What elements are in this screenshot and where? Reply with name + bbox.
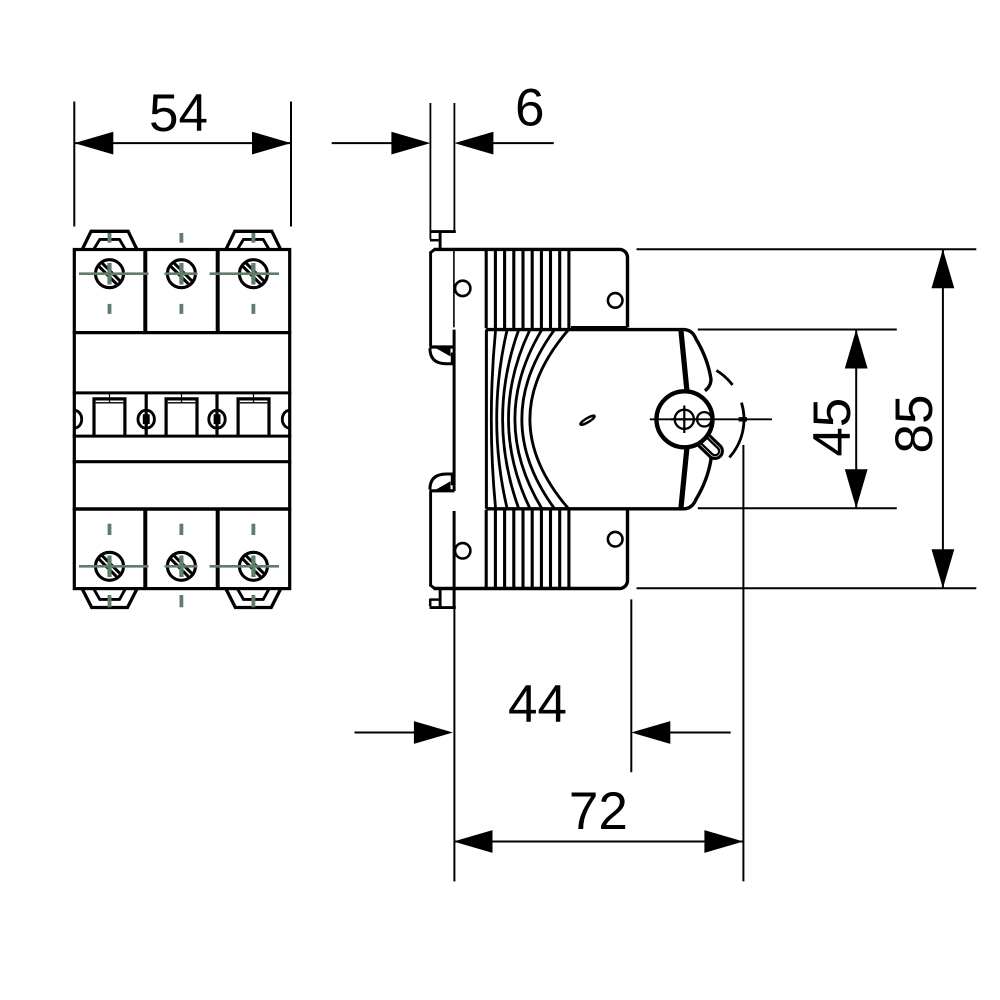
dim 54 line	[74, 142, 291, 144]
dim 54 extension line left	[73, 102, 75, 227]
center line vert screw bottom1	[108, 524, 112, 535]
svg-text:44: 44	[508, 675, 567, 734]
top clip pole3 outer	[226, 231, 281, 249]
rivet oval divider2	[209, 410, 225, 428]
dim 45 extension line bottom	[698, 507, 897, 509]
screw terminal bottom pole2	[167, 552, 195, 580]
molded face arc 7	[530, 330, 569, 509]
mid line 2 (toggle strip bottom)	[73, 435, 292, 438]
dim 45 arrowhead top	[845, 330, 868, 369]
top terminal row bottom line	[73, 331, 292, 334]
dim 44 line right part	[669, 732, 731, 734]
din rail outer line upper	[429, 103, 431, 240]
dim 6 tail right	[492, 142, 554, 144]
body top edge with right rounded corner	[434, 249, 628, 327]
rail flange hook bottom wedge	[436, 481, 451, 489]
rail flange hook bottom curve	[430, 474, 452, 490]
center line vert screw bottom2	[179, 524, 183, 535]
midsection top edge + upper front edge	[486, 330, 711, 391]
knob screw circle with cross	[675, 410, 694, 429]
knob small circle	[697, 412, 711, 426]
dim 72 arrowhead left	[454, 830, 493, 853]
rail web thick line mid lower	[453, 511, 456, 606]
mounting hole top-right	[608, 293, 623, 308]
molded face arc 6	[522, 330, 555, 509]
midsection left rib line	[485, 330, 488, 509]
center line vert screw top1	[108, 233, 112, 243]
body top-left chamfer	[430, 249, 435, 253]
molded face arc 5	[515, 330, 542, 509]
molded face arc 4	[509, 330, 530, 509]
toggle arc center tick	[739, 417, 747, 421]
dim 6 tail left	[332, 142, 393, 144]
center line horiz screw bottom2	[165, 565, 198, 568]
dim 44 line left part	[355, 732, 416, 734]
rail flange hook bottom bar	[429, 489, 454, 492]
toggle knob	[657, 391, 713, 447]
bottom mounting clip hook line	[439, 589, 442, 608]
bottom mounting clip left stub	[429, 599, 432, 607]
dim 72 line	[454, 841, 744, 843]
bottom terminal row top line	[73, 507, 292, 510]
screw terminal top pole2	[167, 260, 195, 288]
top mounting clip hook line	[439, 233, 442, 250]
ribs top block	[486, 249, 569, 328]
ribs bottom block	[486, 510, 569, 589]
top terminal divider 1	[143, 250, 147, 333]
molded face arc 2	[497, 330, 507, 509]
rivet half oval right edge	[282, 410, 289, 428]
top clip pole3 inner	[238, 239, 269, 249]
bottom clip pole1 outer	[82, 589, 137, 608]
molded face arc 1	[491, 330, 495, 509]
toggle handle pole1	[94, 399, 125, 436]
rail web thick line mid upper	[453, 330, 456, 491]
dim 54 extension line right	[290, 102, 292, 227]
toggle strip divider 1	[145, 393, 148, 436]
bottom clip pole3 inner	[238, 589, 269, 599]
bottom terminal divider 1	[143, 509, 147, 589]
svg-text:72: 72	[569, 782, 628, 841]
din rail inner line upper	[453, 103, 455, 231]
svg-text:85: 85	[885, 395, 944, 454]
molded face arc 3	[503, 330, 519, 509]
dim 54 arrowhead left	[74, 132, 113, 155]
rivet half oval left edge	[74, 410, 81, 428]
mid line 3	[73, 460, 292, 463]
dim 85 arrowhead bottom	[932, 549, 955, 588]
center line vert screw bottom3	[251, 524, 255, 535]
center line horiz screw top2	[165, 272, 198, 275]
svg-text:45: 45	[803, 398, 862, 457]
mounting hole bottom-right	[608, 532, 623, 547]
dim 45 arrowhead bottom	[845, 469, 868, 508]
toggle inner wall upper	[681, 330, 687, 391]
top terminal divider 2	[216, 250, 220, 333]
body bottom-left chamfer	[430, 585, 435, 589]
dim 6 arrowhead left	[391, 132, 430, 155]
midsection bottom edge + lower front edge	[486, 448, 711, 509]
mounting hole bottom-left	[455, 543, 470, 558]
rail flange hook top wedge	[436, 348, 451, 356]
dim 44 arrowhead left	[414, 721, 453, 744]
bottom clip pole1 inner	[94, 589, 125, 599]
toggle travel dashed arc lower	[729, 403, 744, 458]
bottom mounting clip notch line	[430, 598, 439, 601]
dim 6 arrowhead right	[454, 132, 493, 155]
dim 45 extension line top	[698, 329, 897, 331]
toggle handle pole3	[238, 399, 269, 436]
body outline front view	[74, 250, 289, 589]
center line vert screw top3	[251, 233, 255, 243]
top mounting clip bar	[430, 230, 456, 233]
screw terminal top pole1	[96, 260, 124, 288]
dim 85 arrowhead top	[932, 249, 955, 288]
svg-text:6: 6	[515, 79, 544, 138]
dim 54 arrowhead right	[252, 132, 291, 155]
rail web thin line through top block	[453, 250, 455, 327]
dim 72 extension line (x743)	[742, 445, 744, 881]
rail flange hook top curve	[430, 348, 452, 364]
toggle inner wall lower	[681, 448, 687, 508]
body left edge lower	[429, 492, 432, 587]
toggle lever	[694, 430, 726, 461]
dim 72 arrowhead right	[704, 830, 743, 853]
mounting hole top-left	[455, 281, 470, 296]
bottom clip pole3 outer	[226, 589, 281, 608]
center line horiz screw top3	[210, 272, 280, 275]
body left edge upper	[429, 252, 432, 347]
center line horiz screw bottom1	[79, 565, 149, 568]
center line horiz screw top1	[79, 272, 149, 275]
center line vert screw top2	[179, 233, 183, 243]
toggle travel dashed arc upper	[716, 370, 732, 385]
screw terminal bottom pole1	[96, 552, 124, 580]
toggle center line	[650, 418, 772, 420]
body bottom edge with right rounded corner	[434, 510, 628, 589]
top block bottom partial edge	[571, 326, 628, 329]
rail flange hook top bar	[429, 345, 454, 348]
rivet oval divider1	[138, 410, 154, 428]
top clip pole1 inner	[94, 239, 125, 249]
bottom terminal divider 2	[216, 509, 220, 589]
dim 44 arrowhead right	[631, 721, 670, 744]
dim 85 extension line top	[637, 248, 977, 250]
svg-text:54: 54	[149, 84, 208, 143]
toggle strip divider 2	[215, 393, 218, 436]
screw terminal bottom pole3	[239, 552, 267, 580]
center line horiz screw bottom3	[210, 565, 280, 568]
dim 85 extension line bottom	[637, 587, 977, 589]
dim 44 extension line (x454)	[453, 606, 455, 881]
bottom mounting clip bar	[430, 606, 456, 609]
top mounting clip notch line	[430, 239, 439, 242]
dim 45 line	[855, 330, 857, 509]
toggle handle pole2	[166, 399, 197, 436]
mold mark oval	[579, 414, 595, 426]
screw terminal top pole3	[239, 260, 267, 288]
top clip pole1 outer	[82, 231, 137, 249]
mid line 1	[73, 391, 292, 394]
dim 44 extension line (x631)	[630, 599, 632, 772]
dim 85 line	[942, 249, 944, 588]
